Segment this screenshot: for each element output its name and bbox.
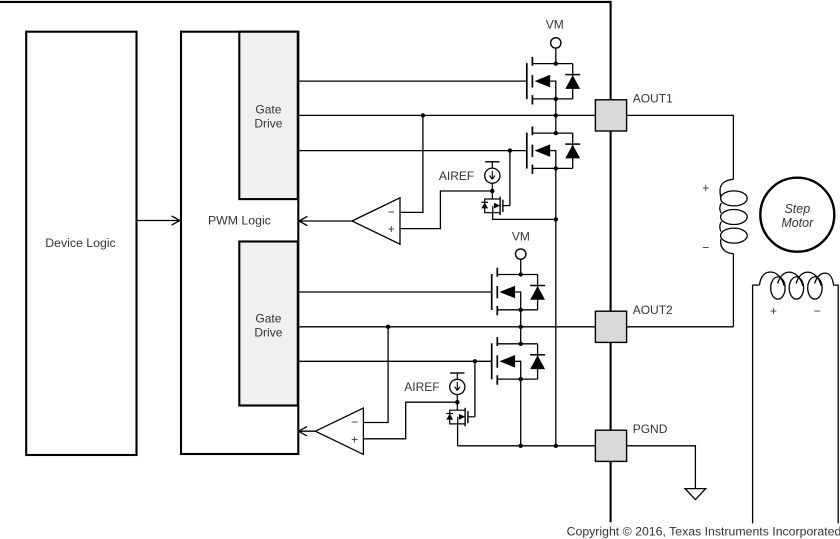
wire gate drive to Q4 gate — [299, 360, 492, 362]
terminal box AOUT1 — [595, 100, 626, 131]
svg-text:Copyright © 2016, Texas Instru: Copyright © 2016, Texas Instruments Inco… — [567, 524, 840, 538]
wire S1 source to Q2 source node — [493, 213, 556, 220]
Device Logic block — [26, 32, 136, 455]
current source AIREF bottom — [450, 373, 465, 402]
svg-text:Motor: Motor — [781, 216, 814, 230]
step motor circle — [760, 178, 834, 252]
wire Q3 source to Q4 drain through AOUT2 node — [520, 310, 522, 344]
chip boundary right vertical line — [610, 1, 612, 522]
svg-text:+: + — [770, 304, 777, 318]
sense FET S1 — [481, 189, 510, 215]
wire U2 output arrow into PWM Logic — [299, 427, 316, 436]
terminal box PGND — [595, 430, 626, 461]
node PGND rail junction at Q4 — [519, 444, 523, 448]
svg-text:Drive: Drive — [254, 116, 282, 130]
svg-text:VM: VM — [512, 229, 530, 243]
node AOUT1 junction — [554, 113, 558, 117]
arrow Device Logic to PWM Logic — [136, 216, 179, 225]
op-amp U1 current chopper A — [352, 198, 400, 244]
ground symbol — [685, 489, 706, 500]
node junction on Q2 gate line — [508, 148, 512, 152]
PWM Logic block — [181, 32, 298, 454]
wire PGND terminal to ground — [627, 446, 696, 489]
wire S1 gate up to Q2 gate line — [509, 151, 511, 206]
wire U1 output arrow into PWM Logic — [299, 216, 352, 225]
svg-text:AIREF: AIREF — [439, 169, 474, 183]
wire gate drive to Q3 gate — [299, 291, 492, 293]
Gate Drive block (bottom) — [239, 242, 297, 406]
op-amp U2 current chopper B — [315, 408, 363, 454]
wire AOUT1 node from gate drive to terminal — [299, 114, 596, 116]
wire AOUT2 node from gate drive to terminal — [299, 326, 596, 328]
svg-text:−: − — [814, 304, 821, 318]
svg-text:AIREF: AIREF — [404, 380, 439, 394]
wire gate drive to Q1 gate — [299, 80, 527, 82]
sense FET S2 — [446, 400, 475, 426]
wire PGND rail — [458, 445, 596, 447]
terminal box AOUT2 — [595, 311, 626, 342]
inductor winding A (vertical coil) — [720, 179, 747, 253]
wire U2 non-inverting input to AIREF2 node — [363, 402, 457, 439]
svg-text:Drive: Drive — [254, 326, 282, 340]
wire gate drive to Q2 gate — [299, 150, 527, 152]
chip boundary top line — [0, 1, 611, 3]
node Q2 source sense junction — [554, 217, 558, 221]
Gate Drive block (top) — [239, 32, 297, 199]
transistor Q2 low-side AOUT1 — [527, 126, 580, 174]
wire S2 gate up to Q4 gate line — [474, 361, 476, 417]
wire U1 inverting input to AOUT1 node — [400, 115, 423, 212]
svg-text:VM: VM — [546, 18, 564, 32]
svg-text:+: + — [702, 181, 709, 195]
svg-text:Gate: Gate — [255, 102, 281, 116]
node AIREF1 junction — [490, 189, 494, 193]
inductor winding B (horizontal coil) — [753, 272, 839, 523]
transistor Q4 low-side AOUT2 — [492, 337, 545, 385]
svg-text:−: − — [702, 240, 709, 254]
wire S2 source down to PGND rail — [457, 424, 459, 446]
node PGND rail junction at Q2 — [554, 444, 558, 448]
node AOUT2 junction — [519, 325, 523, 329]
svg-text:PWM Logic: PWM Logic — [208, 214, 271, 228]
wire Q1 source to Q2 drain through AOUT1 node — [555, 99, 557, 133]
svg-text:AOUT2: AOUT2 — [633, 303, 673, 317]
transistor Q3 high-side AOUT2 — [492, 268, 545, 316]
wire AOUT1 terminal to motor winding A — [627, 115, 734, 179]
wire motor winding A to AOUT2 terminal — [627, 254, 734, 327]
svg-text:Device Logic: Device Logic — [45, 236, 115, 250]
wire Q4 source down to PGND rail — [520, 379, 522, 446]
wire U2 inverting input to AOUT2 node — [363, 327, 388, 423]
svg-text:AOUT1: AOUT1 — [633, 92, 673, 106]
svg-text:Step: Step — [784, 202, 810, 216]
transistor Q1 high-side AOUT1 — [527, 57, 580, 105]
wire Q2 source down to PGND rail — [555, 168, 557, 445]
node AIREF2 junction — [455, 400, 459, 404]
svg-text:PGND: PGND — [633, 422, 668, 436]
wire U1 non-inverting input to AIREF node — [400, 191, 492, 229]
node junction AOUT2 to U2 — [386, 325, 390, 329]
node junction on Q4 gate line — [473, 359, 477, 363]
svg-text:Gate: Gate — [255, 312, 281, 326]
current source AIREF top — [485, 162, 500, 191]
node junction AOUT1 to U1 — [421, 113, 425, 117]
